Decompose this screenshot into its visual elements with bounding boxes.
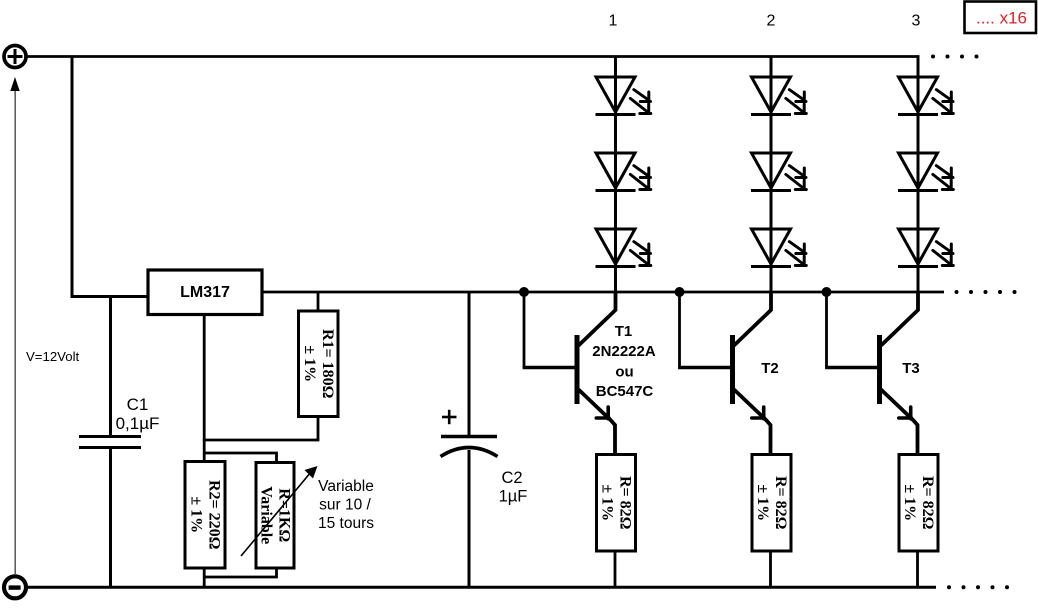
capacitor C1: [79, 437, 141, 448]
LED D12: [596, 153, 651, 191]
wire: base lead of T3: [825, 366, 879, 369]
svg-text:sur 10 /: sur 10 /: [319, 497, 371, 514]
wire: T3 emitter resistor to ground: [916, 551, 919, 587]
svg-text:V=12Volt: V=12Volt: [26, 349, 79, 364]
svg-text:1: 1: [609, 13, 618, 30]
wire: LM317 adjust pin down: [203, 315, 206, 463]
resistor R1: [299, 311, 339, 417]
svg-text:ou: ou: [615, 364, 633, 381]
LED D23: [751, 229, 806, 267]
LED D11: [596, 77, 651, 115]
wire: junction down to T1 base: [523, 292, 526, 368]
wire: ground bottom bus: [26, 586, 937, 589]
svg-text:3: 3: [912, 13, 921, 30]
wire continuation dots (top bus): [931, 55, 979, 59]
LED D31: [898, 77, 953, 115]
transistor T3: [880, 291, 919, 454]
wire: C2 branch lower: [468, 450, 471, 587]
wire continuation dots (ground bus): [947, 585, 1009, 589]
wire: V+ top bus: [26, 55, 920, 58]
wire: R2 bottom to ground: [203, 568, 206, 587]
potentiometer arrow across RV: [241, 466, 318, 556]
regulator U1 LM317: [148, 270, 262, 315]
wire: RV bottom bus: [204, 567, 276, 577]
LED D22: [751, 153, 806, 191]
wire: C2 branch upper: [468, 292, 471, 437]
wire: base lead of T2: [678, 366, 732, 369]
svg-text:C2: C2: [501, 469, 522, 487]
wire: output bus to R1 top: [317, 292, 320, 312]
wire: C1 branch upper: [109, 297, 112, 438]
wire: junction down to T3 base: [825, 292, 828, 368]
transistor T2: [733, 291, 772, 454]
LED D32: [898, 153, 953, 191]
wire: V+ drop to regulator input: [72, 56, 149, 297]
resistor R_T1: [597, 455, 636, 552]
resistor RV: [256, 463, 294, 569]
node: base feed junction for T1: [519, 287, 529, 297]
svg-text:.... x16: .... x16: [976, 9, 1027, 28]
svg-text:T2: T2: [761, 360, 779, 377]
transistor T1: [577, 291, 616, 454]
svg-text:T1: T1: [615, 323, 633, 340]
wire: T1 emitter resistor to ground: [614, 551, 617, 587]
wire: LED string 3 column: [917, 57, 920, 293]
wire: base lead of T1: [523, 366, 577, 369]
plus terminal (+12V): [4, 46, 26, 68]
wire: adjust node to RV top: [204, 453, 276, 463]
svg-text:15 tours: 15 tours: [318, 515, 374, 532]
svg-text:2N2222A: 2N2222A: [592, 343, 656, 360]
svg-text:T3: T3: [902, 360, 920, 377]
LED D13: [596, 229, 651, 267]
LED D33: [898, 229, 953, 267]
minus terminal (0V): [4, 576, 26, 598]
wire: LED string 2 column: [770, 57, 773, 293]
svg-text:2: 2: [767, 13, 776, 30]
svg-text:LM317: LM317: [180, 284, 230, 301]
label transistor T1 type: [592, 323, 656, 400]
resistor R2: [185, 462, 225, 569]
svg-text:C1: C1: [127, 395, 149, 414]
resistor R_T2: [752, 455, 791, 552]
label: Variable sur 10 / 15 tours: [318, 478, 374, 532]
wire continuation dots (output bus): [955, 290, 1017, 294]
wire: regulator output bus (Vout): [260, 291, 944, 294]
capacitor C2 (polarized): [441, 437, 498, 457]
wire: T2 emitter resistor to ground: [769, 551, 772, 587]
wire: C1 branch lower: [109, 448, 112, 588]
polarity + of C2: [442, 410, 457, 424]
resistor R_T3: [899, 455, 938, 552]
svg-text:0,1µF: 0,1µF: [116, 414, 160, 433]
wire: junction down to T2 base: [678, 292, 681, 368]
LED D21: [751, 77, 806, 115]
wire: LED string 1 column: [614, 57, 617, 293]
note box: .... x16: [965, 2, 1037, 34]
wire: R1 bottom to adjust node: [203, 417, 318, 441]
node: base feed junction for T3: [822, 287, 832, 297]
svg-text:Variable: Variable: [318, 478, 374, 495]
voltage measurement arrow V=12Volt: [10, 77, 19, 574]
node: base feed junction for T2: [675, 287, 685, 297]
svg-text:BC547C: BC547C: [596, 383, 654, 400]
svg-text:1µF: 1µF: [499, 488, 528, 506]
